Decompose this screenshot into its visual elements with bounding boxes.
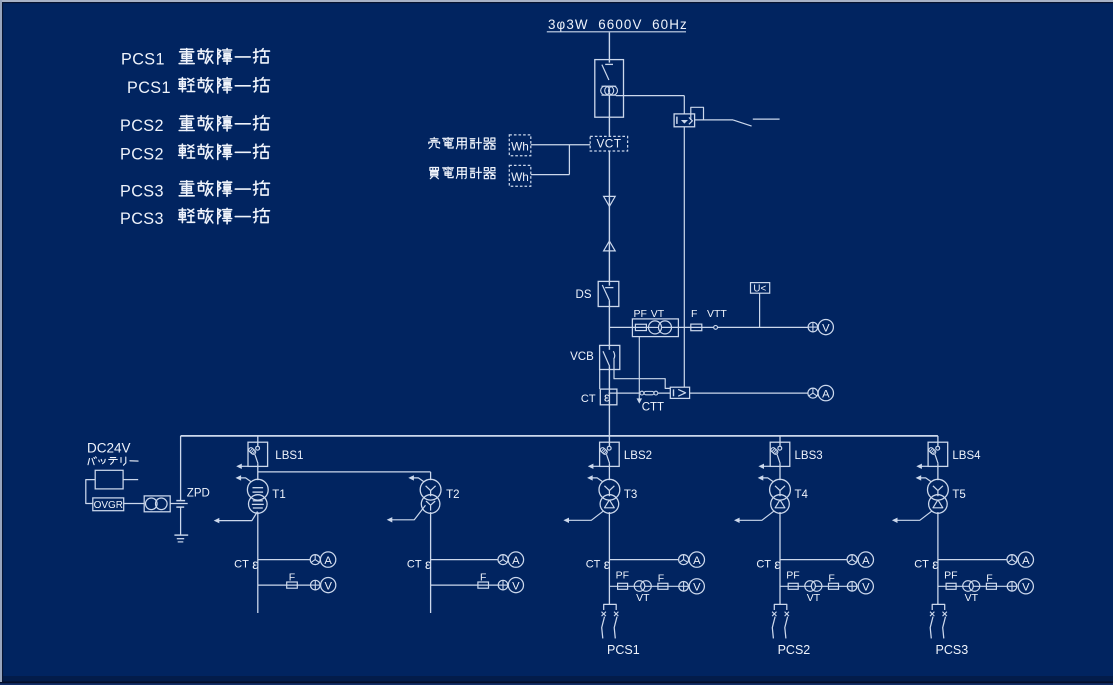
VCT combined metering transformer xyxy=(590,136,627,151)
wire OVGR to ZPD transformer xyxy=(124,503,145,505)
ammeter A xyxy=(1018,552,1033,567)
svg-text:PCS2: PCS2 xyxy=(120,146,164,164)
voltmeter V xyxy=(818,320,833,335)
svg-text:F: F xyxy=(691,308,697,320)
wire bus to LBS3 xyxy=(779,436,781,447)
ammeter selector switch xyxy=(847,555,857,565)
ammeter A xyxy=(508,552,523,567)
svg-text:V: V xyxy=(512,580,520,592)
wire PAS to VCT xyxy=(608,95,610,136)
voltmeter V xyxy=(689,579,704,594)
svg-text:CT: CT xyxy=(234,558,249,570)
wire LBS4 to T5 xyxy=(937,464,939,481)
T1 winding symbols xyxy=(253,487,264,489)
T3 voltage branch xyxy=(609,585,678,587)
LBS LBS3 box xyxy=(770,442,790,466)
ammeter A xyxy=(818,385,833,400)
cable head lower xyxy=(604,241,616,251)
svg-text:ε: ε xyxy=(774,557,780,572)
svg-text:OVGR: OVGR xyxy=(94,500,123,511)
voltmeter V xyxy=(321,578,336,593)
overcurrent relay I> box xyxy=(670,387,689,398)
svg-text:T2: T2 xyxy=(446,489,459,501)
DS blade xyxy=(602,285,609,301)
wire LBS1 to T1 xyxy=(257,464,259,481)
svg-text:T4: T4 xyxy=(795,489,809,501)
VCB trip wire to relay xyxy=(614,359,670,388)
svg-text:F: F xyxy=(658,572,664,584)
T3 winding symbols xyxy=(604,486,609,491)
svg-text:PCS3: PCS3 xyxy=(936,643,969,657)
svg-text:PCS3: PCS3 xyxy=(120,210,164,228)
T2 upper tap arrow xyxy=(411,478,424,482)
ammeter A xyxy=(858,552,873,567)
CTT pointer arrow xyxy=(638,337,640,399)
PAS overcurrent-lock coil xyxy=(601,86,610,95)
svg-text:V: V xyxy=(693,582,701,594)
T2 lower tap arrow xyxy=(389,505,426,520)
PAS blade xyxy=(602,65,609,80)
svg-text:A: A xyxy=(324,555,332,567)
T2 voltage branch xyxy=(431,584,499,586)
LBS2 blade xyxy=(607,454,610,463)
svg-text:V: V xyxy=(822,322,830,334)
wire CT secondary to ammeter xyxy=(258,559,310,561)
T5 lower tap arrow xyxy=(894,511,933,521)
LBS1 blade xyxy=(255,454,258,463)
svg-text:ε: ε xyxy=(932,557,938,572)
wire T2 branch feed xyxy=(258,471,431,473)
CT box xyxy=(600,389,617,405)
ammeter selector switch xyxy=(310,555,320,565)
svg-text:VT: VT xyxy=(636,592,650,604)
window left edge xyxy=(0,0,2,682)
F fuse xyxy=(691,324,702,331)
svg-text:CT: CT xyxy=(756,558,771,570)
voltmeter selector switch xyxy=(498,580,508,590)
wire T5 feeder xyxy=(937,512,939,604)
ammeter selector switch xyxy=(498,555,508,565)
T2 winding symbols xyxy=(426,486,431,491)
relay loop link xyxy=(691,107,704,120)
voltmeter selector switch xyxy=(1007,582,1017,592)
LBS1 trip arrow xyxy=(239,465,249,467)
contact fixed side xyxy=(753,118,780,120)
DS contact bar xyxy=(605,287,613,289)
T4 winding symbols xyxy=(775,486,780,491)
LBS3 trip arrow xyxy=(761,465,771,467)
wire T1 feeder xyxy=(257,512,259,613)
LBS2 trip arrow xyxy=(590,465,600,467)
svg-text:A: A xyxy=(1022,555,1030,567)
wire VCT to DS xyxy=(608,151,610,286)
svg-text:PCS1: PCS1 xyxy=(607,643,640,657)
PCS2 feeder bracket xyxy=(774,604,787,610)
F fuse xyxy=(658,583,668,589)
VCB-CT link xyxy=(599,370,601,390)
F fuse xyxy=(829,583,839,589)
svg-text:CT: CT xyxy=(581,393,596,405)
PCS1 contact x-marks xyxy=(602,612,606,616)
svg-text:ZPD: ZPD xyxy=(187,487,210,499)
svg-text:CT: CT xyxy=(407,558,422,570)
relay output contact wire xyxy=(695,119,733,121)
transformer T1 secondary winding xyxy=(248,495,267,514)
wire VT primary branch xyxy=(609,326,808,328)
svg-text:A: A xyxy=(512,555,520,567)
battery stub wire xyxy=(123,479,138,481)
PCS1 feeder bracket xyxy=(604,604,617,610)
svg-text:CTT: CTT xyxy=(642,401,664,413)
ammeter selector switch xyxy=(808,388,818,398)
svg-text:PF: PF xyxy=(616,570,629,582)
voltmeter selector switch xyxy=(311,580,321,590)
LBS1 fuse barrel xyxy=(248,447,257,455)
ammeter selector switch xyxy=(1007,555,1017,565)
wire T3 feeder xyxy=(608,512,610,604)
LBS4 contact circle xyxy=(936,446,940,450)
ZPD drop from bus xyxy=(180,436,182,501)
svg-text:LBS1: LBS1 xyxy=(275,450,303,462)
LBS LBS2 box xyxy=(600,442,620,466)
svg-text:LBS2: LBS2 xyxy=(624,450,652,462)
PCS2 contact x-marks xyxy=(772,612,776,616)
svg-text:A: A xyxy=(693,555,701,567)
wire CT secondary to ammeter xyxy=(431,559,498,561)
svg-text:3φ3W 6600V 60Hz: 3φ3W 6600V 60Hz xyxy=(548,17,688,32)
svg-text:F: F xyxy=(986,572,992,584)
wire CT secondary to ammeter xyxy=(938,559,1007,561)
PAS fixed contact xyxy=(605,63,613,65)
ground xyxy=(174,534,188,536)
svg-text:PCS2: PCS2 xyxy=(120,117,164,135)
T1 lower tap arrow xyxy=(216,512,258,521)
contact blade xyxy=(733,120,752,126)
ammeter A xyxy=(689,552,704,567)
wire service drop xyxy=(608,32,610,62)
F fuse xyxy=(287,582,298,588)
wire CT secondary to ammeter xyxy=(780,559,847,561)
LBS LBS4 box xyxy=(928,442,948,466)
cable head upper xyxy=(604,196,616,206)
main bus xyxy=(181,435,938,437)
VT circles xyxy=(805,581,816,592)
transformer T4 primary winding xyxy=(770,479,791,500)
VT circles xyxy=(634,581,645,592)
CT secondary wire xyxy=(609,392,671,394)
T1 voltage branch xyxy=(258,584,311,586)
svg-text:DS: DS xyxy=(576,289,592,301)
DS disconnector box xyxy=(598,281,619,306)
svg-text:PF: PF xyxy=(786,570,799,582)
svg-text:T1: T1 xyxy=(272,489,285,501)
LBS1 contact circle xyxy=(256,446,260,450)
battery box xyxy=(95,470,123,489)
svg-text:VTT: VTT xyxy=(707,308,727,320)
wire LBS2 to T3 xyxy=(608,464,610,481)
svg-text:VT: VT xyxy=(651,308,665,320)
undervoltage relay U< xyxy=(751,283,770,294)
svg-text:CT: CT xyxy=(914,558,929,570)
svg-text:VT: VT xyxy=(807,592,821,604)
transformer T5 primary winding xyxy=(928,479,949,500)
transformer T1 primary winding xyxy=(247,479,268,500)
T3 lower tap arrow xyxy=(565,511,604,521)
T4 lower tap arrow xyxy=(736,511,775,521)
wire capacitor to ground xyxy=(180,507,182,535)
svg-text:VCT: VCT xyxy=(596,137,621,151)
T1 upper tap arrow xyxy=(238,478,251,482)
title underline xyxy=(547,31,686,33)
T5 voltage branch xyxy=(938,585,1007,587)
VT winding circles xyxy=(649,321,662,334)
PAS pole switch box xyxy=(595,60,624,118)
wire DS to VCB xyxy=(608,301,610,350)
T3 upper tap arrow xyxy=(590,478,603,482)
LBS2 contact circle xyxy=(607,446,611,450)
svg-text:Wh: Wh xyxy=(511,170,529,184)
PF power fuse xyxy=(635,324,646,330)
svg-text:V: V xyxy=(324,580,332,592)
voltmeter selector switch xyxy=(808,322,818,332)
svg-text:PCS1: PCS1 xyxy=(127,79,171,97)
svg-text:V: V xyxy=(1022,582,1030,594)
LBS4 fuse barrel xyxy=(928,447,937,455)
LBS3 fuse barrel xyxy=(770,447,779,455)
wire branch to T2 xyxy=(430,472,432,480)
svg-text:CT: CT xyxy=(586,558,601,570)
wire U< drop xyxy=(759,293,761,327)
svg-text:DC24V: DC24V xyxy=(87,441,131,456)
F fuse xyxy=(478,582,489,588)
ammeter selector switch xyxy=(679,555,689,565)
wire T4 feeder xyxy=(779,512,781,604)
svg-text:VCB: VCB xyxy=(570,351,594,363)
svg-text:PCS2: PCS2 xyxy=(778,643,811,657)
wire T2 feeder xyxy=(430,512,432,613)
relay symbol I arrow xyxy=(676,117,678,124)
LBS3 contact circle xyxy=(778,446,782,450)
svg-text:T5: T5 xyxy=(952,489,965,501)
svg-text:A: A xyxy=(822,388,830,400)
svg-text:PF: PF xyxy=(634,308,647,320)
wire CT secondary to ammeter xyxy=(609,559,678,561)
T5 winding symbols xyxy=(933,486,938,491)
svg-text:ε: ε xyxy=(425,557,431,572)
LBS4 trip arrow xyxy=(919,465,929,467)
PF fuse xyxy=(946,583,956,589)
wire battery to OVGR xyxy=(86,480,95,504)
svg-text:LBS3: LBS3 xyxy=(795,450,823,462)
VTT test terminal xyxy=(714,326,718,330)
T5 upper tap arrow xyxy=(918,478,931,482)
PCS3 feeder bracket xyxy=(932,604,945,610)
voltmeter selector switch xyxy=(847,582,857,592)
wire Wh1 to VCT xyxy=(531,144,590,146)
window bottom band xyxy=(0,676,1113,685)
ground-fault relay I> box xyxy=(674,114,695,127)
svg-text:PCS1: PCS1 xyxy=(121,50,165,68)
transformer T2 secondary winding xyxy=(421,495,440,514)
svg-text:ε: ε xyxy=(604,557,610,572)
CTT plug xyxy=(644,391,654,394)
wire LBS3 to T4 xyxy=(779,464,781,481)
LBS LBS1 box xyxy=(248,442,268,466)
ZPD auxiliary transformer xyxy=(144,496,170,512)
svg-text:V: V xyxy=(862,582,870,594)
transformer T5 secondary winding xyxy=(929,495,948,514)
PCS3 contact x-marks xyxy=(930,612,934,616)
ZPD capacitor plates xyxy=(176,500,185,502)
PCS1 breaker blades xyxy=(602,617,605,639)
Wh meter selling xyxy=(509,135,531,156)
LBS3 blade xyxy=(777,454,780,463)
wire Wh2 junction xyxy=(531,174,570,176)
VT circles xyxy=(963,581,974,592)
voltmeter V xyxy=(1018,579,1033,594)
wire bus to LBS4 xyxy=(937,436,939,447)
wire relay to ammeter xyxy=(690,392,809,394)
F fuse xyxy=(986,583,996,589)
svg-text:U<: U< xyxy=(753,283,766,294)
svg-text:ε: ε xyxy=(252,557,258,572)
svg-text:LBS4: LBS4 xyxy=(952,450,981,462)
PF fuse xyxy=(788,583,798,589)
T4 voltage branch xyxy=(780,585,847,587)
window top edge xyxy=(0,0,1113,2)
wire VCB to bus xyxy=(608,366,610,436)
voltmeter selector switch xyxy=(679,582,689,592)
VCB vacuum breaker box xyxy=(600,345,620,369)
voltmeter V xyxy=(508,578,523,593)
PCS3 breaker blades xyxy=(930,617,933,639)
label buying meter xyxy=(430,168,439,171)
VCB blade xyxy=(603,351,610,366)
LBS4 blade xyxy=(935,454,938,463)
LBS2 fuse barrel xyxy=(600,447,609,455)
svg-text:F: F xyxy=(828,572,834,584)
svg-text:T3: T3 xyxy=(624,489,637,501)
T4 upper tap arrow xyxy=(760,478,773,482)
wire bus to LBS1 xyxy=(257,436,259,447)
OVGR relay box xyxy=(93,498,124,511)
wire down to ground relay xyxy=(683,96,685,114)
VCB arc contact xyxy=(613,351,614,359)
transformer T3 primary winding xyxy=(599,479,620,500)
svg-text:Wh: Wh xyxy=(511,140,529,154)
wire to ZPD capacitor xyxy=(170,503,188,505)
transformer T4 secondary winding xyxy=(771,495,790,514)
PF VT box xyxy=(632,319,678,337)
svg-text:ε: ε xyxy=(604,390,610,404)
PF fuse xyxy=(618,583,628,589)
voltmeter V xyxy=(858,579,873,594)
svg-text:VT: VT xyxy=(965,592,979,604)
transformer T2 primary winding xyxy=(420,479,441,500)
Wh meter buying xyxy=(509,165,531,186)
wire PAS control tap xyxy=(616,95,684,97)
label selling meter xyxy=(433,138,435,139)
transformer T3 secondary winding xyxy=(600,495,619,514)
svg-text:A: A xyxy=(862,555,870,567)
wire relay to overcurrent relay below xyxy=(683,127,685,387)
svg-text:PF: PF xyxy=(944,570,957,582)
svg-text:PCS3: PCS3 xyxy=(120,183,164,201)
label battery (katakana) xyxy=(88,459,90,465)
ammeter A xyxy=(320,552,335,567)
PCS2 breaker blades xyxy=(772,617,775,639)
